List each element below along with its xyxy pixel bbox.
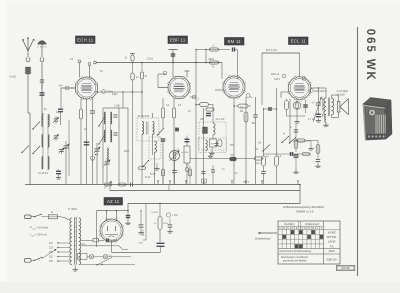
chassis bus	[25, 184, 300, 186]
IF2 coil	[155, 141, 157, 152]
supply top wire	[97, 204, 129, 211]
osc coil L9a	[104, 130, 105, 142]
primary tap 240V	[49, 260, 70, 263]
bandwidth labels	[258, 132, 285, 145]
mains plug P1	[25, 215, 35, 219]
chain resistor R296	[294, 140, 298, 149]
right bus link	[299, 184, 301, 204]
svg-text:126 V: 126 V	[274, 78, 281, 81]
mains plug P2	[25, 259, 35, 263]
osc value	[114, 104, 121, 107]
ant coil L4b	[48, 157, 49, 170]
svg-text:1mA: 1mA	[138, 242, 143, 245]
wire x290	[289, 99, 291, 144]
socket loop	[91, 154, 99, 160]
bus stub 204	[203, 180, 204, 184]
wire x246	[245, 97, 247, 185]
bandwidth switch H3	[289, 137, 296, 144]
value label 30pF	[124, 151, 130, 153]
osc switch S5	[98, 135, 104, 144]
lead-in A2	[41, 51, 43, 58]
bus2	[110, 190, 300, 192]
osc coil L9b	[111, 130, 112, 142]
svg-text:3n 0,1nF: 3n 0,1nF	[216, 119, 226, 121]
lamp link 2	[108, 256, 131, 258]
pin ECL topleft	[271, 73, 286, 78]
cap C-tone2 dark	[316, 114, 321, 116]
svg-text:30pF: 30pF	[124, 151, 130, 153]
EM cap drop	[236, 50, 238, 80]
label 5+2V	[145, 177, 151, 179]
dial lamp La1	[89, 255, 93, 259]
IF2 shield box	[149, 137, 161, 159]
primary tap 220V	[49, 256, 70, 259]
bus stub 170	[169, 180, 170, 184]
branch cap 16n	[168, 219, 173, 230]
bus label 542V	[243, 181, 250, 184]
bus stub 158	[157, 180, 158, 184]
value label 4n	[235, 173, 238, 175]
value label 1,1	[266, 156, 270, 158]
wire x276	[276, 88, 278, 156]
svg-text:Schalterknopf: Schalterknopf	[255, 237, 271, 240]
bus stub 246	[245, 180, 246, 184]
wire ECH bottom	[86, 99, 88, 185]
pot P-ecl	[293, 99, 301, 116]
tone arrow	[313, 97, 322, 123]
chain gnd	[293, 170, 298, 174]
wire 342V	[138, 204, 146, 245]
heater row 4	[81, 264, 135, 265]
elco C-f1 dark	[157, 243, 165, 252]
label 0+100	[10, 77, 17, 79]
IF3 shield box	[199, 122, 226, 150]
bus stub 232	[231, 180, 232, 184]
svg-text:Ko 30 km: Ko 30 km	[38, 172, 48, 175]
svg-text:065 WK: 065 WK	[364, 29, 376, 82]
value label 0,3	[178, 105, 182, 107]
hang res x163	[162, 169, 165, 185]
switch S-mid	[142, 160, 149, 167]
sheet number box	[336, 265, 354, 270]
fuse Si	[49, 211, 58, 219]
heater row 2	[80, 244, 119, 246]
svg-text:Oszillator: Oszillator	[284, 223, 295, 226]
riser x206	[205, 50, 207, 63]
tuner col A wire	[42, 114, 43, 169]
page bottom edge	[0, 282, 400, 293]
osc trimmer C8	[114, 115, 118, 117]
transformer secondary winding	[79, 218, 81, 265]
resistor R-ebf1	[161, 98, 164, 128]
tuning gang C-var1	[63, 144, 70, 151]
transformer core	[74, 217, 76, 265]
box resistor R-det	[177, 136, 191, 185]
note line 1	[283, 205, 325, 209]
bw chain x318	[316, 141, 320, 159]
osc coil L10	[107, 148, 108, 161]
svg-text:6bV 1,07k: 6bV 1,07k	[266, 49, 278, 52]
bus stub 186	[185, 180, 186, 184]
tuner left rail	[28, 113, 30, 185]
power text I	[30, 233, 47, 238]
trimmer links	[56, 116, 62, 154]
value label 0,1	[186, 165, 190, 167]
pin ECH right	[102, 90, 114, 94]
label EM 11	[225, 38, 245, 46]
value label 4,7 nm	[308, 119, 315, 121]
speaker text	[337, 91, 349, 96]
primary tap 110V	[49, 242, 70, 245]
osc coil L8a	[104, 112, 105, 124]
ECH grid components	[58, 88, 63, 125]
IF3 core coil blob	[202, 127, 209, 134]
primary tap 125V	[49, 247, 70, 250]
capacitor C-ebf-k	[161, 139, 166, 185]
resistor R-em2	[210, 61, 219, 69]
chain cap C296	[294, 130, 299, 132]
EBF T stub	[185, 71, 190, 78]
value label 0,1	[240, 107, 244, 109]
IF3 dark oval	[218, 140, 223, 147]
EBF screen T-bar	[169, 50, 178, 63]
resistor R-r1	[262, 156, 266, 166]
lamp label box	[78, 254, 88, 260]
label AZ 11	[104, 198, 123, 206]
tube ECH11	[75, 77, 97, 99]
tube AZ11	[100, 219, 123, 242]
svg-text:1,29k: 1,29k	[114, 104, 121, 107]
svg-text:30=: 30=	[59, 85, 64, 88]
ECH top stub 1	[78, 60, 81, 78]
chain x296 wire	[295, 124, 297, 153]
tube ECL11	[288, 77, 311, 100]
svg-text:Gezeichnete Schalterstellung: Gezeichnete Schalterstellung	[280, 250, 312, 253]
tuner col B wire	[47, 114, 49, 169]
branch gnd	[167, 230, 172, 234]
chain dark cap	[294, 155, 299, 170]
IF3 box resistor	[210, 139, 217, 147]
ground ECL	[294, 120, 299, 124]
IF4 shield box	[199, 138, 227, 153]
lead-in A1	[27, 51, 29, 58]
antenna coil L1	[24, 67, 31, 74]
band switch S3	[21, 145, 29, 153]
IF3 gnd	[209, 147, 214, 155]
title 065 WK	[364, 29, 376, 82]
socket A2	[40, 58, 44, 62]
link cap dark	[291, 152, 293, 156]
svg-text:6B: 6B	[252, 123, 255, 125]
ground output transformer	[323, 123, 328, 127]
link y141 gnd	[308, 147, 313, 151]
wire ECH plate	[97, 79, 143, 118]
capacitor C-ebf-s	[171, 54, 176, 56]
capacitor C-r2	[253, 115, 258, 117]
circle component	[185, 168, 189, 172]
ground C-az	[125, 221, 130, 225]
antenna A2 earth	[38, 41, 47, 52]
value label 1,0	[278, 156, 282, 158]
trimmer C3	[53, 134, 59, 140]
osc switch S4	[98, 117, 104, 126]
value label 0,1	[70, 59, 74, 61]
svg-text:KURZ: KURZ	[328, 230, 336, 234]
svg-text:= 16n: = 16n	[172, 215, 179, 217]
tuner bottom gnd	[56, 176, 61, 180]
svg-text:GB: GB	[200, 119, 204, 121]
svg-text:5+2V: 5+2V	[150, 174, 156, 176]
cath bottom link	[287, 116, 306, 120]
ant coil L3b	[48, 135, 49, 148]
capacitor C-det dark	[185, 139, 190, 141]
note line 2	[296, 209, 314, 213]
bw chain cap	[316, 159, 321, 164]
resistor R-ecl-k	[285, 99, 289, 117]
svg-text:AZ 11: AZ 11	[107, 199, 120, 204]
hang gnd x157	[154, 163, 159, 170]
pin EBF right	[192, 95, 199, 100]
tuning gang C-var2	[94, 147, 101, 154]
label 126V	[274, 78, 281, 81]
series cap y109	[269, 107, 271, 111]
svg-text:4,7 nm: 4,7 nm	[308, 119, 315, 121]
resistor R-ech-k	[79, 109, 82, 119]
tuner label	[38, 172, 48, 175]
bus resistor	[119, 183, 126, 186]
socket A1	[26, 58, 30, 62]
ant coil L2b	[48, 115, 49, 127]
filter output wire	[112, 251, 161, 253]
resistor R-em3	[233, 98, 251, 185]
osc plate elbow	[122, 91, 123, 108]
B+ return wire	[128, 203, 300, 205]
value label GB12	[208, 59, 215, 61]
IF4 cap	[215, 143, 219, 145]
speaker LS	[337, 99, 348, 115]
main bus wire	[96, 62, 222, 64]
svg-text:Tr. 50Hz: Tr. 50Hz	[68, 208, 78, 211]
wire x203	[203, 108, 205, 185]
hang cap x213	[211, 165, 215, 185]
value label a	[290, 127, 292, 129]
ECH top stub 2	[88, 63, 91, 78]
ant coil L3a	[42, 135, 43, 148]
ECL top wire	[262, 49, 300, 53]
svg-text:EM 11: EM 11	[228, 39, 242, 44]
svg-text:6,3V~: 6,3V~	[80, 244, 87, 246]
transformer primary winding	[70, 218, 72, 265]
svg-text:= 50 Watt: = 50 Watt	[36, 226, 48, 230]
link y109	[263, 108, 277, 109]
AZ plate wires	[106, 210, 117, 221]
coil link wires 0	[43, 113, 48, 128]
switch S-ebf	[157, 128, 164, 136]
bw chain gnd	[315, 164, 320, 168]
primary tap 150V	[49, 251, 70, 254]
bus pot with arrow	[104, 181, 112, 189]
bandwidth switch H2	[281, 136, 289, 143]
svg-text:dyn. Lautsprecher: dyn. Lautsprecher	[322, 98, 325, 117]
value label 2x	[56, 112, 59, 114]
transformer gnd	[73, 265, 78, 272]
supply left drop	[96, 211, 98, 247]
svg-text:zb 5x60: zb 5x60	[337, 95, 346, 97]
label ECH 11	[76, 36, 96, 44]
svg-text:065 WK: 065 WK	[341, 266, 350, 270]
bus junction x132	[132, 62, 134, 64]
page left edge	[0, 0, 7, 293]
trimmer C4	[59, 148, 65, 154]
lamp link	[94, 256, 104, 258]
pin ECL top	[302, 77, 306, 81]
svg-text:Wellenknopf: Wellenknopf	[305, 223, 319, 226]
capacitor C-agc dark	[84, 142, 90, 145]
value label zk	[250, 97, 253, 99]
heater row 1	[81, 239, 117, 243]
wire x256	[255, 97, 257, 185]
wire A2 down	[41, 63, 43, 90]
bus stub 262	[261, 180, 262, 184]
wire y158 GB13	[190, 157, 264, 165]
svg-text:ECL 11: ECL 11	[291, 38, 307, 43]
wire ECH grid	[61, 87, 76, 89]
value label 50	[100, 71, 103, 73]
osc rail	[102, 108, 104, 185]
svg-text:0+100: 0+100	[10, 77, 17, 79]
junction EBF screen	[172, 62, 174, 64]
wire EBF grid	[158, 87, 168, 89]
IF1 wires	[142, 113, 153, 185]
elco circle label	[166, 213, 178, 217]
hang cap x203	[202, 171, 206, 173]
value label 8,8kv	[112, 94, 118, 96]
transformer label	[68, 208, 78, 211]
resistor R-filter	[152, 203, 169, 243]
osc top link	[103, 107, 119, 109]
svg-text:542 V: 542 V	[243, 181, 250, 184]
power text P	[30, 226, 48, 231]
bus left terminal	[94, 61, 97, 64]
wire ECL grid	[281, 92, 289, 98]
svg-text:H: H	[283, 132, 285, 136]
ground C-tone	[316, 119, 321, 123]
capacitor C-r1	[261, 109, 266, 185]
svg-text:342 V: 342 V	[142, 229, 145, 236]
svg-text:5+2V: 5+2V	[145, 177, 151, 179]
resistor R-ebf3	[195, 103, 213, 118]
IF1 core	[147, 122, 149, 135]
svg-text:KW/MW 1x 2,8: KW/MW 1x 2,8	[296, 209, 314, 213]
svg-text:1,5nm: 1,5nm	[147, 58, 154, 61]
osc col wires	[106, 112, 111, 142]
resistor R-ebf2	[172, 99, 175, 185]
lamp switch arm	[96, 258, 112, 266]
wire EBF grid up	[158, 74, 166, 88]
dial lamp La2	[103, 255, 112, 259]
resistor R-if-feed	[140, 62, 147, 79]
IF1 primary coil	[142, 122, 144, 135]
radio cabinet illustration	[363, 98, 392, 141]
resistor R-r2	[275, 156, 279, 185]
osc coil L8b	[111, 112, 112, 124]
capacitor C-az	[126, 210, 131, 221]
capacitor C-a2	[40, 80, 45, 82]
value label 0,1	[166, 105, 170, 107]
fuse wire	[42, 216, 49, 218]
resistor R-em1	[210, 45, 219, 51]
svg-text:zb (N 5000: zb (N 5000	[337, 91, 349, 93]
IF1 secondary coil	[153, 122, 155, 135]
svg-text:ECH 11: ECH 11	[77, 37, 94, 42]
svg-text:a62 mA: a62 mA	[271, 73, 280, 76]
svg-text:M: M	[312, 228, 314, 230]
margin separator line	[357, 27, 359, 276]
osc padder C10	[104, 158, 111, 185]
bus2 left drop	[110, 185, 169, 191]
svg-text:G: G	[304, 228, 306, 230]
svg-text:GB12: GB12	[208, 59, 215, 61]
capacitor C-az2	[139, 210, 144, 230]
resistor R-bus-dn	[131, 63, 139, 185]
EM feed upper wire	[195, 49, 230, 50]
AZ cathode wire	[111, 241, 113, 253]
bw resistor	[296, 139, 319, 142]
pot coupling cap	[172, 170, 177, 184]
pin EM right	[246, 94, 250, 98]
long wire x262	[261, 53, 263, 105]
ant coil L2a	[42, 115, 43, 127]
coil link wires 1	[43, 135, 48, 149]
value label GB	[200, 119, 204, 121]
link y141	[293, 141, 311, 147]
mains switch S-m1	[34, 214, 42, 218]
value label 1n	[222, 169, 225, 171]
bus stub 298	[297, 180, 298, 184]
pin EBF top	[163, 71, 167, 75]
output transformer secondary	[332, 98, 334, 115]
svg-text:ZF 30 kHZ: ZF 30 kHZ	[138, 115, 150, 118]
voltage selector arm	[42, 249, 57, 259]
wire sec top	[332, 95, 339, 102]
tuner right rail	[68, 120, 70, 176]
wire EBF screen down	[172, 56, 174, 77]
output transformer core	[328, 98, 329, 117]
primary top wire	[58, 217, 70, 220]
bus capacitor	[131, 183, 133, 187]
heater row 3	[87, 256, 89, 258]
value label 6B	[252, 123, 255, 125]
wire EBF plate	[190, 50, 197, 185]
resistor R-bus-up	[125, 54, 136, 62]
speaker vert label	[322, 98, 325, 117]
IF3 coil	[213, 123, 215, 135]
tube EBF11	[168, 76, 190, 98]
value label 5+2V	[150, 174, 156, 176]
ECL top drop	[299, 53, 301, 78]
junction x206	[205, 49, 207, 64]
hang res x190	[189, 166, 192, 185]
capacitor C-a2b dark	[40, 93, 45, 95]
svg-text:GB13: GB13	[255, 163, 261, 165]
value label B+	[44, 109, 48, 111]
svg-text:6000 Ω/V: 6000 Ω/V	[327, 258, 338, 261]
page top edge	[7, 0, 400, 4]
band switch S2	[32, 146, 40, 154]
coil link wires 2	[43, 157, 48, 171]
ECH cathode wires	[80, 99, 82, 185]
bandwidth switch H1	[262, 144, 270, 151]
